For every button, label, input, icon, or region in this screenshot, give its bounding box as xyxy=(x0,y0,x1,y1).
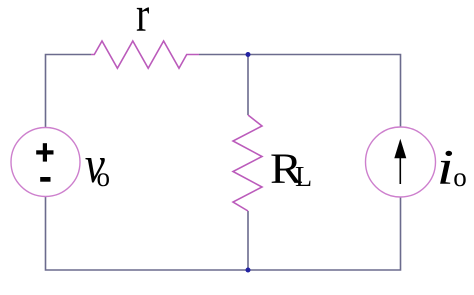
voltage source plus sign xyxy=(36,150,53,154)
svg-text:i: i xyxy=(437,140,454,195)
wire left-bottom segment xyxy=(46,197,249,271)
resistor RL xyxy=(233,115,262,211)
wire top-left segment xyxy=(46,55,92,129)
voltage source V1 circle xyxy=(11,128,80,197)
wire right-bottom segment xyxy=(248,197,401,270)
wire top-right segment xyxy=(199,55,401,128)
wire RL bottom lead xyxy=(247,211,249,270)
current source arrow xyxy=(399,156,401,184)
junction node top xyxy=(246,52,251,57)
junction node bottom xyxy=(246,268,251,273)
current source I1 circle xyxy=(366,127,436,197)
svg-text:o: o xyxy=(97,162,111,192)
svg-text:r: r xyxy=(136,0,149,42)
voltage source minus sign xyxy=(40,177,50,182)
resistor r xyxy=(91,41,199,68)
wire RL top lead xyxy=(247,55,249,116)
svg-text:L: L xyxy=(295,162,312,193)
svg-text:o: o xyxy=(453,162,467,192)
